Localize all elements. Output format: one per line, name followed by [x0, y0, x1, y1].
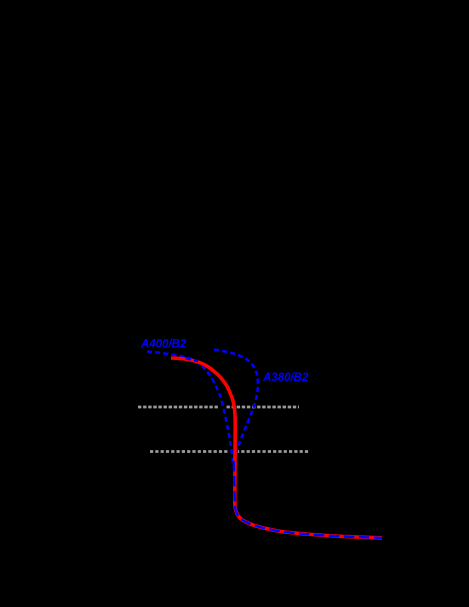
gray dotted reference line 2 (right segment): [236, 450, 310, 453]
blue dashed curve A400/B2: [147, 352, 233, 463]
svg-text:A380/B2: A380/B2: [262, 372, 309, 384]
svg-text:A400/B2: A400/B2: [140, 339, 187, 351]
gray dotted reference line 1 (right segment): [227, 406, 300, 409]
gray dotted reference line 1 (left segment): [138, 406, 220, 409]
blue dashed curve A380/B2: [214, 350, 258, 463]
blue dash crossing over red near x=191: [186, 358, 198, 361]
red solid curve: [171, 358, 382, 538]
gray dotted reference line 2 (left segment): [150, 450, 229, 453]
blue dashed overlay on merged lower curve: [234, 461, 382, 538]
